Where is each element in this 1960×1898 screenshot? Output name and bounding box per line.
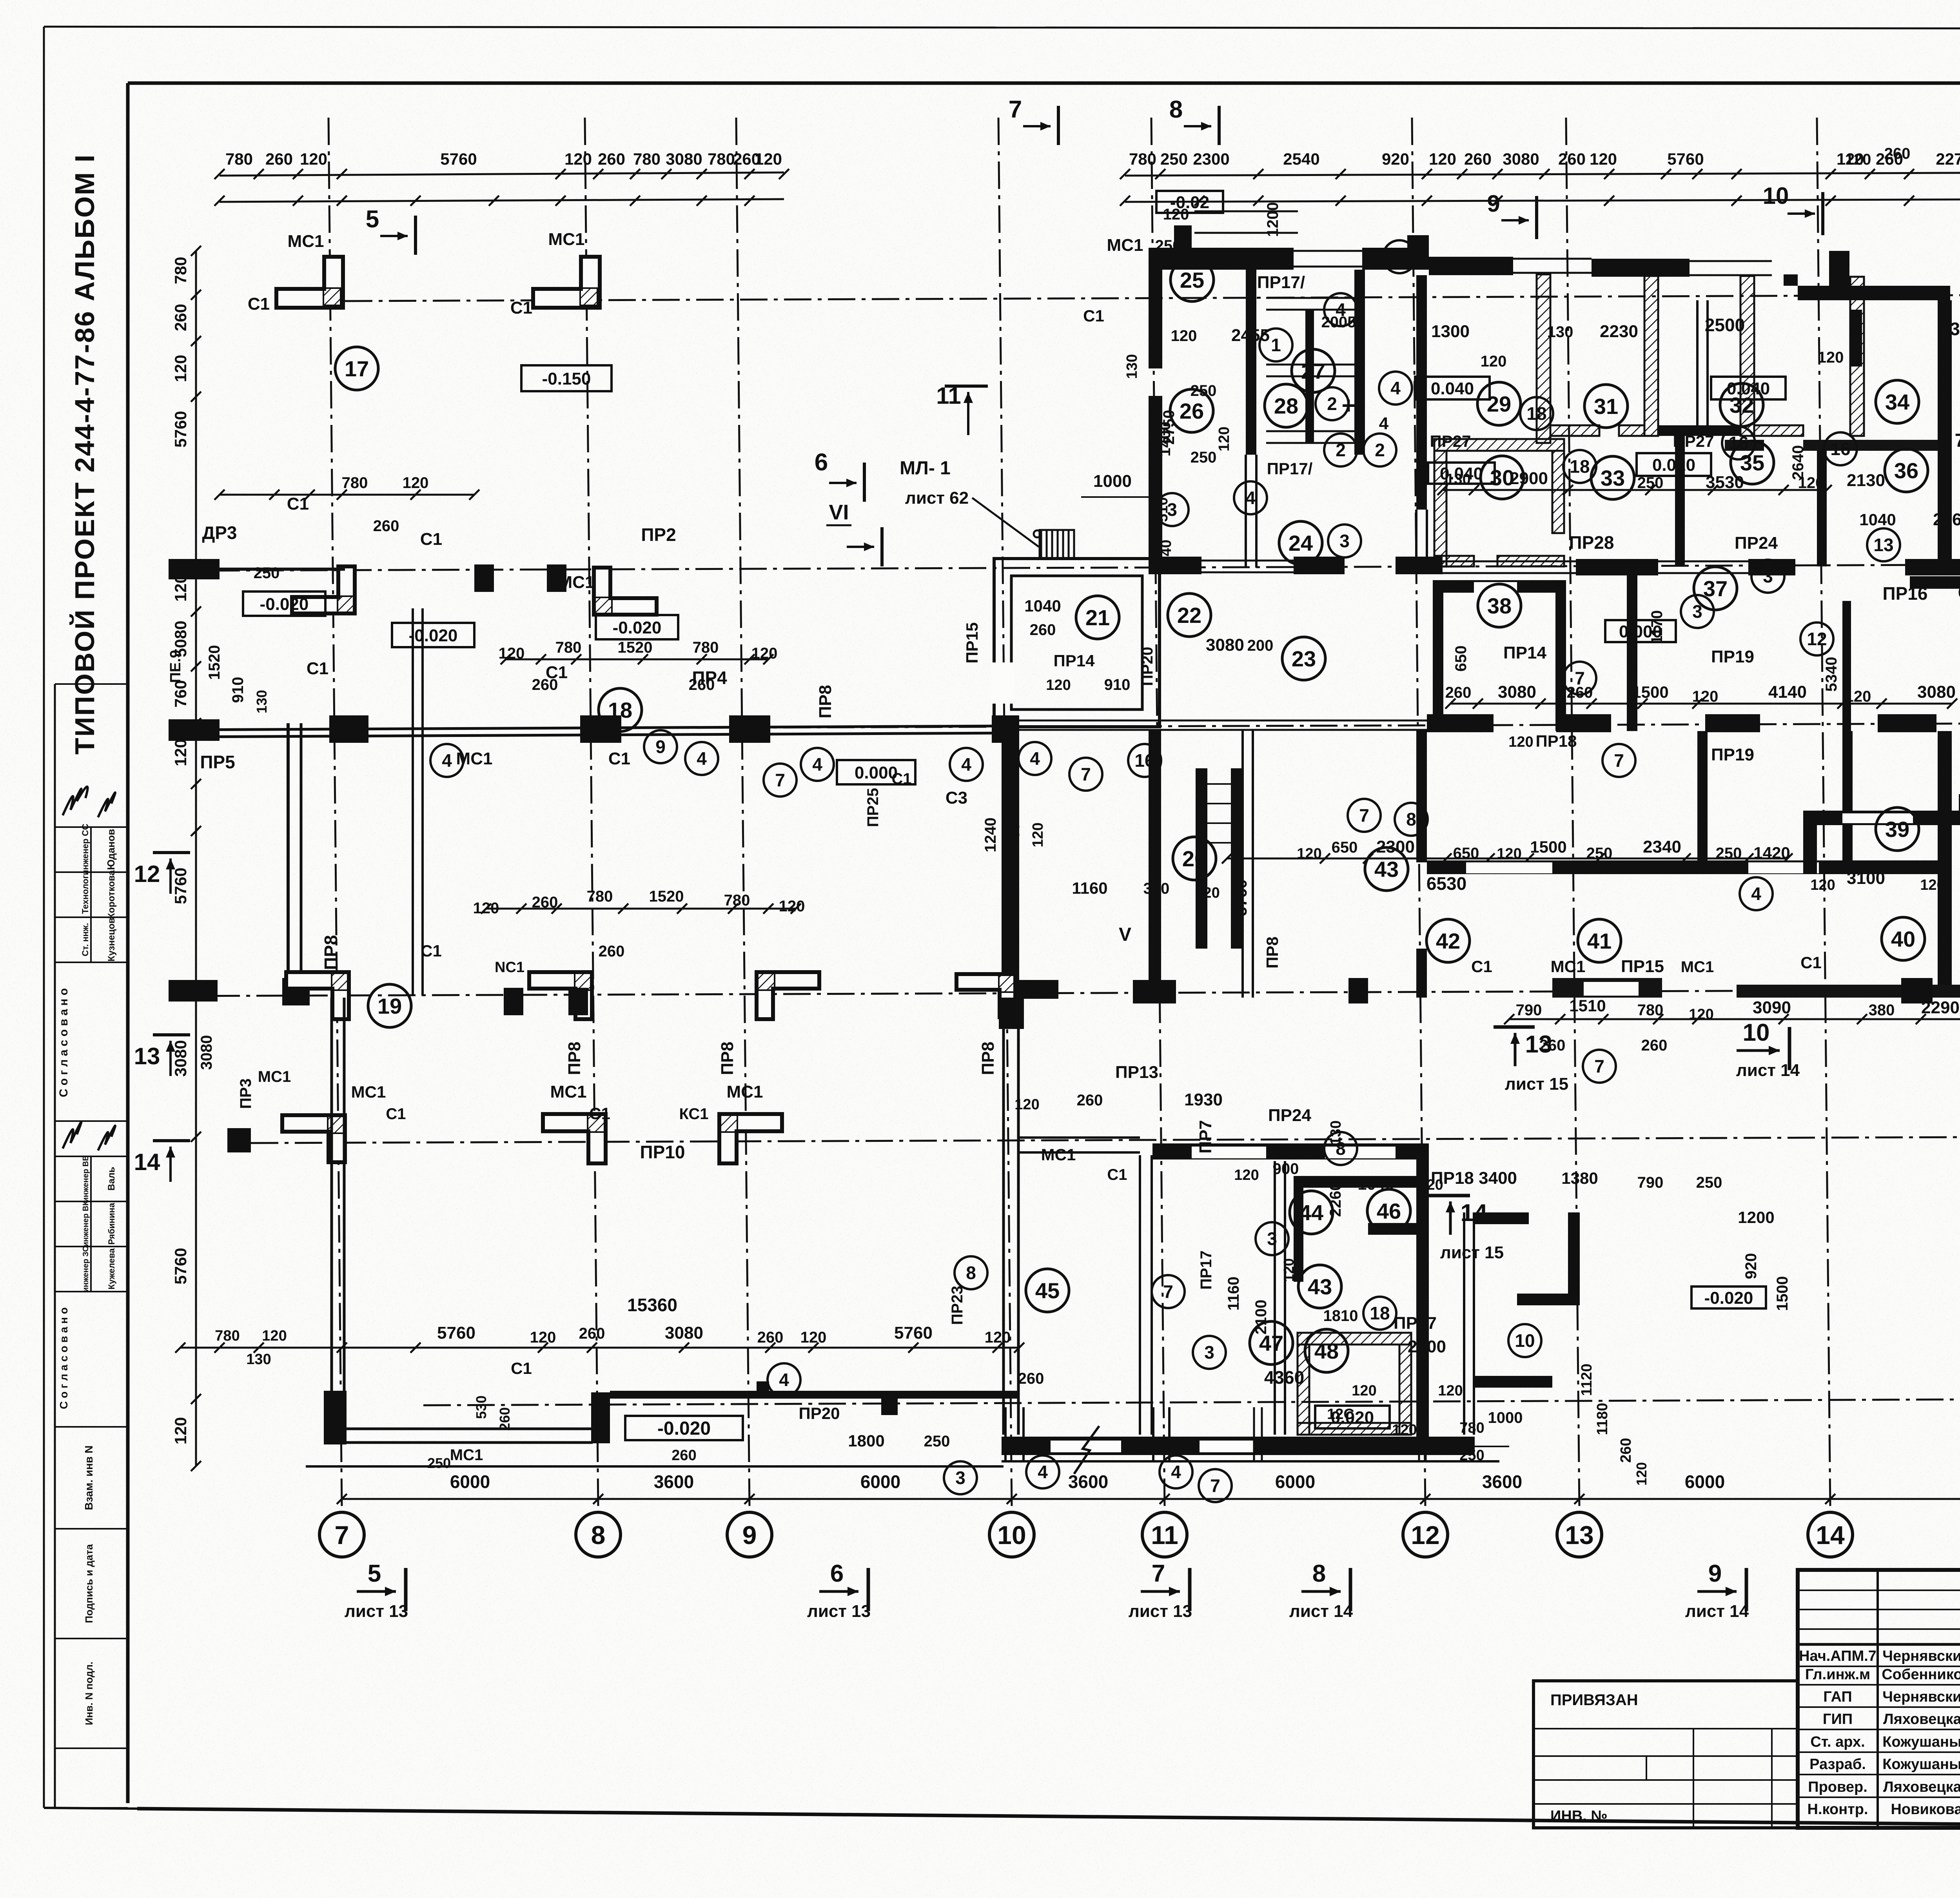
svg-text:3090: 3090 <box>1753 998 1791 1017</box>
room30 top wall <box>1434 439 1564 451</box>
svg-text:43: 43 <box>1374 857 1399 882</box>
svg-text:250: 250 <box>254 564 280 582</box>
svg-text:1160: 1160 <box>1225 1277 1242 1311</box>
axis В line <box>423 1399 1960 1405</box>
svg-text:790: 790 <box>1516 1002 1542 1019</box>
svg-text:инженер ВВ: инженер ВВ <box>82 1155 90 1202</box>
svg-text:Кожушаный: Кожушаный <box>1882 1756 1960 1773</box>
svg-text:5760: 5760 <box>894 1323 933 1343</box>
svg-text:260: 260 <box>598 150 625 168</box>
svg-text:4: 4 <box>1379 414 1389 433</box>
room32 right wall hatched <box>1850 277 1864 436</box>
pier С1 on В wall <box>757 1381 769 1398</box>
svg-text:640: 640 <box>1958 583 1960 601</box>
pos circle 3 <box>1681 595 1714 628</box>
svg-text:120: 120 <box>403 474 429 492</box>
svg-text:2340: 2340 <box>1643 837 1681 856</box>
partition left of 35 <box>1675 436 1685 566</box>
svg-text:ПРИВЯЗАН: ПРИВЯЗАН <box>1550 1691 1638 1709</box>
svg-text:2500: 2500 <box>1705 315 1745 335</box>
elevation -0.020 c <box>596 615 678 639</box>
room30 left wall <box>1434 451 1446 566</box>
Е wall seg2 <box>1556 714 1611 732</box>
svg-text:1170: 1170 <box>1648 610 1666 644</box>
exterior wall И band seg1 <box>1150 248 1294 270</box>
svg-text:2230: 2230 <box>1600 322 1638 341</box>
svg-text:3: 3 <box>1339 531 1350 551</box>
svg-text:1300: 1300 <box>1431 322 1470 341</box>
svg-text:инженер СС: инженер СС <box>80 824 90 875</box>
svg-text:Чернявский: Чернявский <box>1882 1648 1960 1664</box>
svg-text:1: 1 <box>1271 335 1281 355</box>
svg-text:120: 120 <box>755 150 782 168</box>
svg-text:3: 3 <box>1763 566 1773 586</box>
svg-text:4: 4 <box>1245 488 1256 508</box>
exterior wall И band seg3b <box>1592 259 1690 277</box>
svg-text:120: 120 <box>171 739 190 766</box>
room 34 circle <box>1876 380 1919 423</box>
axis 8 line <box>585 118 598 1508</box>
svg-text:1500: 1500 <box>1530 838 1566 856</box>
pier axis10/Е <box>992 715 1019 743</box>
room 36 circle <box>1885 449 1928 492</box>
svg-text:МС1: МС1 <box>456 749 493 768</box>
svg-text:6000: 6000 <box>1275 1472 1315 1492</box>
svg-text:10: 10 <box>1389 247 1409 267</box>
porch column b <box>1152 1407 1154 1461</box>
svg-text:250: 250 <box>1155 237 1181 254</box>
svg-text:7: 7 <box>1152 1560 1165 1587</box>
svg-text:3600: 3600 <box>1068 1472 1108 1492</box>
svg-text:12: 12 <box>134 861 160 887</box>
svg-text:3080: 3080 <box>1917 682 1956 702</box>
svg-text:260: 260 <box>171 304 190 331</box>
wall y2085 right wing top <box>1803 811 1960 825</box>
svg-text:лист 13: лист 13 <box>1129 1602 1192 1621</box>
svg-text:3: 3 <box>1204 1342 1214 1363</box>
svg-text:24: 24 <box>1289 531 1313 555</box>
vertical x4960 middle <box>1938 731 1952 998</box>
svg-text:-0.020: -0.020 <box>260 595 309 614</box>
room 46 circle <box>1367 1189 1410 1232</box>
pos circle 3 <box>1751 560 1784 593</box>
stub pier Г left <box>227 1128 251 1152</box>
wall tab above И mid <box>1407 235 1429 257</box>
svg-text:0.040: 0.040 <box>1431 379 1474 398</box>
svg-text:ПР17/: ПР17/ <box>1267 459 1313 478</box>
svg-text:5760: 5760 <box>171 867 190 904</box>
bottom frame line <box>44 1808 137 1809</box>
svg-text:250: 250 <box>924 1433 950 1450</box>
svg-text:1400: 1400 <box>1156 422 1174 457</box>
svg-text:120: 120 <box>1845 151 1871 168</box>
svg-text:2600: 2600 <box>1408 1337 1446 1356</box>
pilaster axis7/Д ПР8 <box>286 972 349 1019</box>
pos circle 4 <box>768 1363 800 1396</box>
svg-text:ПР2: ПР2 <box>641 524 676 545</box>
svg-text:2300: 2300 <box>1193 150 1229 168</box>
axis И line <box>345 295 1960 301</box>
svg-text:130: 130 <box>246 1351 271 1368</box>
Д wall seg ПР15 <box>1552 978 1662 998</box>
axis Г line <box>251 1137 1960 1143</box>
room 33 circle <box>1591 456 1634 499</box>
svg-text:-0.020: -0.020 <box>1704 1288 1753 1308</box>
axis 11 line <box>1151 118 1165 1508</box>
svg-text:18: 18 <box>1370 1303 1390 1323</box>
svg-text:3080: 3080 <box>665 1323 703 1343</box>
svg-text:780: 780 <box>215 1328 240 1344</box>
pier МС1 В row <box>591 1392 610 1443</box>
svg-text:4: 4 <box>1390 378 1401 398</box>
svg-text:12С: 12С <box>1327 1406 1354 1423</box>
room31 bottom wall right <box>1619 425 1644 436</box>
svg-text:19: 19 <box>377 994 402 1018</box>
svg-text:инженер ВК: инженер ВК <box>82 1201 90 1247</box>
svg-text:530: 530 <box>473 1395 489 1419</box>
axis 13 line <box>1566 118 1579 1508</box>
left exterior wall upper seg <box>1149 248 1162 368</box>
svg-text:VI: VI <box>829 501 849 524</box>
axis Д line <box>169 990 1960 996</box>
svg-text:250: 250 <box>1586 845 1613 862</box>
pier left wall/Д <box>282 978 310 1005</box>
svg-text:650: 650 <box>1452 646 1470 672</box>
svg-text:7: 7 <box>1009 96 1022 123</box>
svg-text:ПР28: ПР28 <box>1569 532 1614 553</box>
pos circle 4 <box>430 744 463 777</box>
svg-text:Кожушаный: Кожушаный <box>1882 1734 1960 1750</box>
svg-text:Короткова: Короткова <box>106 870 117 919</box>
svg-text:2130: 2130 <box>1847 471 1885 490</box>
svg-text:Взам. инв N: Взам. инв N <box>83 1446 95 1510</box>
svg-text:10: 10 <box>997 1521 1026 1550</box>
room 20 circle <box>1173 837 1216 880</box>
svg-text:16: 16 <box>1830 439 1850 459</box>
pos circle 3 <box>1156 493 1189 526</box>
pier axis9/Е <box>729 715 770 743</box>
svg-text:260: 260 <box>1884 145 1911 162</box>
pos circle 4 <box>1324 293 1357 326</box>
svg-text:Гл.инж.м: Гл.инж.м <box>1805 1666 1870 1683</box>
svg-text:7: 7 <box>1359 805 1369 826</box>
pos circle 4 <box>1740 877 1773 910</box>
svg-text:12: 12 <box>1807 629 1827 649</box>
porch line left hall <box>306 1465 1004 1468</box>
svg-text:5: 5 <box>368 1560 381 1587</box>
pos circle 4 <box>950 748 983 781</box>
svg-text:120: 120 <box>1171 327 1197 345</box>
pilaster МС1/С1 Г row a <box>543 1114 606 1163</box>
wall pier Ж <box>474 564 494 592</box>
svg-text:Технолог: Технолог <box>80 875 90 914</box>
Ж wall seg4 <box>1748 559 1795 575</box>
svg-text:ПР8: ПР8 <box>978 1042 998 1075</box>
room30 right wall <box>1552 451 1564 533</box>
svg-text:48: 48 <box>1314 1339 1339 1363</box>
svg-text:ПР20: ПР20 <box>799 1404 840 1423</box>
svg-text:ПР14: ПР14 <box>1054 651 1095 670</box>
svg-text:МС1: МС1 <box>548 230 585 249</box>
bottom block vertical x3747 double <box>1463 1212 1465 1435</box>
room48 left wall <box>1298 1345 1309 1435</box>
svg-text:35: 35 <box>1740 450 1764 475</box>
axis 14 line <box>1817 118 1830 1508</box>
svg-text:3600: 3600 <box>1482 1472 1522 1492</box>
vertical x2940 middle <box>1149 730 1161 998</box>
room38 right wall <box>1555 593 1566 731</box>
svg-text:Подпись и дата: Подпись и дата <box>83 1544 95 1623</box>
svg-text:260: 260 <box>1558 150 1586 168</box>
svg-text:120: 120 <box>1030 822 1046 847</box>
svg-text:5: 5 <box>366 206 379 233</box>
svg-text:23: 23 <box>1292 646 1316 671</box>
svg-text:МС1: МС1 <box>1551 957 1586 976</box>
svg-text:260: 260 <box>671 1447 696 1464</box>
svg-text:ПР8: ПР8 <box>321 935 341 970</box>
svg-text:120: 120 <box>1920 877 1945 893</box>
pos circle 4 <box>1026 1455 1059 1488</box>
right exterior wall upper block <box>1938 300 1952 564</box>
san wall bottom <box>1266 430 1356 432</box>
svg-text:120: 120 <box>1046 677 1071 693</box>
wall y2210 seg2 <box>1708 860 1938 874</box>
outer page border <box>44 27 1960 29</box>
elevation -0.020 room10 <box>1691 1287 1766 1308</box>
svg-text:ДР3: ДР3 <box>202 523 237 543</box>
svg-text:250: 250 <box>427 1455 451 1471</box>
svg-text:260: 260 <box>373 517 399 535</box>
svg-text:Н.контр.: Н.контр. <box>1807 1801 1868 1818</box>
pier Д row 2 <box>568 988 588 1015</box>
svg-text:ПР24: ПР24 <box>1735 533 1778 553</box>
Е wall seg1 <box>1427 714 1494 732</box>
svg-text:3: 3 <box>1692 601 1702 622</box>
room 22 circle <box>1168 593 1211 637</box>
svg-text:120: 120 <box>171 1417 190 1444</box>
svg-text:С1: С1 <box>1471 957 1492 976</box>
svg-text:ПР17: ПР17 <box>1198 1250 1215 1290</box>
svg-text:250: 250 <box>1637 474 1664 492</box>
svg-text:1800: 1800 <box>848 1432 884 1450</box>
axis Ж line <box>169 564 1960 571</box>
pier axis7/Е МС1 <box>329 715 368 743</box>
svg-text:5760: 5760 <box>1232 879 1250 916</box>
Ж wall seg3 <box>1396 557 1443 574</box>
top dimension chains <box>220 172 784 176</box>
svg-text:ПР14: ПР14 <box>1503 643 1546 662</box>
svg-text:2900: 2900 <box>1510 469 1548 488</box>
svg-text:Юданов: Юданов <box>105 829 117 870</box>
vertical x4710 middle <box>1842 731 1853 874</box>
svg-text:120: 120 <box>499 645 525 662</box>
bottom block vertical x2920 double <box>1139 1155 1141 1435</box>
svg-text:1420: 1420 <box>1753 844 1790 862</box>
svg-text:780: 780 <box>724 892 750 909</box>
svg-text:260: 260 <box>1539 1037 1566 1054</box>
svg-text:26: 26 <box>1180 399 1204 423</box>
svg-text:3080: 3080 <box>666 150 702 168</box>
partition x3613 lower <box>1415 510 1417 568</box>
svg-text:лист 14: лист 14 <box>1289 1602 1353 1621</box>
svg-text:9: 9 <box>1487 191 1500 217</box>
room44 top wall <box>1294 1176 1423 1188</box>
pos circle 3 <box>1256 1222 1289 1255</box>
pier Д row <box>504 988 523 1015</box>
svg-text:ПР19: ПР19 <box>1711 745 1754 764</box>
svg-text:С1: С1 <box>511 1359 532 1377</box>
svg-text:+: + <box>1341 392 1355 419</box>
svg-text:250: 250 <box>1459 1447 1484 1464</box>
elevation 0.040 a <box>1415 377 1490 399</box>
svg-text:250: 250 <box>1696 1174 1722 1191</box>
svg-text:6000: 6000 <box>450 1472 490 1492</box>
svg-text:120: 120 <box>1633 1462 1650 1486</box>
pos circle 1 <box>1259 328 1292 361</box>
porch column c <box>1253 1407 1255 1461</box>
svg-text:ПР23: ПР23 <box>949 1286 966 1325</box>
svg-text:10: 10 <box>1515 1330 1535 1351</box>
svg-text:МС1: МС1 <box>351 1083 386 1101</box>
san wall top <box>1266 297 1356 299</box>
svg-text:5760: 5760 <box>440 150 477 168</box>
svg-text:лист 13: лист 13 <box>345 1602 408 1621</box>
pos circle 10 <box>1383 240 1416 273</box>
svg-text:44: 44 <box>1299 1200 1323 1225</box>
svg-text:3100: 3100 <box>1847 869 1885 888</box>
svg-text:780: 780 <box>693 639 719 656</box>
room 32 circle <box>1720 383 1763 426</box>
Ж opening 2 <box>1443 561 1576 563</box>
room38 left wall <box>1433 593 1443 731</box>
svg-text:780: 780 <box>633 150 661 168</box>
svg-text:ПР24: ПР24 <box>1268 1106 1311 1125</box>
svg-text:4140: 4140 <box>1768 682 1807 702</box>
room 41 circle <box>1578 919 1621 962</box>
svg-text:27: 27 <box>1301 359 1325 383</box>
elevation -0.020 b <box>392 623 474 647</box>
axis 7 line <box>328 118 342 1508</box>
svg-text:8: 8 <box>591 1521 606 1550</box>
bottom dimension line 6000/3600 chain <box>342 1498 1960 1500</box>
svg-text:ПР15: ПР15 <box>963 622 981 664</box>
svg-text:2: 2 <box>1327 394 1337 414</box>
porch column d <box>1418 1407 1420 1461</box>
svg-text:ПР3: ПР3 <box>237 1078 254 1109</box>
svg-text:ПР8: ПР8 <box>816 685 835 718</box>
svg-text:780: 780 <box>171 257 190 284</box>
wall stub ДР3 <box>169 559 220 579</box>
room 18 circle <box>599 688 642 731</box>
svg-text:МС1: МС1 <box>1681 958 1714 976</box>
svg-text:45: 45 <box>1035 1278 1060 1303</box>
svg-text:1120: 1120 <box>1579 1364 1595 1396</box>
Е wall seg4 <box>1878 714 1936 732</box>
svg-text:Кузнецов: Кузнецов <box>106 918 117 962</box>
pier Д right С1 <box>1901 978 1933 1003</box>
svg-text:3: 3 <box>955 1468 965 1488</box>
svg-text:120: 120 <box>473 900 499 917</box>
room 44 circle <box>1290 1191 1333 1234</box>
signatures scribbles left table <box>63 787 88 815</box>
svg-text:120: 120 <box>1352 1383 1376 1399</box>
room 43 circle <box>1365 847 1408 891</box>
svg-text:ПР8: ПР8 <box>718 1042 737 1075</box>
pos circle 8 <box>1395 803 1428 836</box>
elevation 0.000 <box>837 760 915 784</box>
pos circle 16 <box>1722 426 1755 459</box>
svg-text:120: 120 <box>1297 846 1321 862</box>
wall stub Д left <box>169 980 218 1002</box>
svg-text:13: 13 <box>1565 1521 1593 1550</box>
svg-text:5760: 5760 <box>1667 150 1704 168</box>
svg-text:6: 6 <box>830 1560 844 1587</box>
svg-text:4360: 4360 <box>1940 319 1960 339</box>
svg-text:120: 120 <box>1438 1383 1463 1399</box>
pos circle 7 <box>764 764 797 797</box>
svg-text:4: 4 <box>442 750 452 771</box>
pier Д ПР7 <box>1348 978 1368 1003</box>
svg-text:8: 8 <box>1169 96 1183 123</box>
room48 bottom wall <box>1298 1423 1411 1435</box>
svg-text:130: 130 <box>1124 354 1140 379</box>
svg-text:920: 920 <box>1382 150 1409 168</box>
pos circle 2 <box>1316 387 1348 420</box>
svg-text:С1: С1 <box>287 494 309 514</box>
room 45 circle <box>1026 1269 1069 1312</box>
svg-text:1500: 1500 <box>1632 683 1668 701</box>
exterior wall И band seg3 <box>1429 257 1513 275</box>
left wall of middle block (axis10) <box>1002 730 1019 998</box>
svg-text:2100: 2100 <box>1252 1300 1270 1335</box>
room 25 circle <box>1171 258 1214 301</box>
pos circle 7 <box>1069 758 1102 791</box>
svg-text:8: 8 <box>966 1263 976 1283</box>
svg-text:920: 920 <box>1742 1253 1760 1279</box>
svg-text:1040: 1040 <box>1859 510 1896 529</box>
wall y3525 <box>1475 1376 1552 1388</box>
В wall lower line b <box>347 1441 593 1444</box>
svg-text:С о г л а с о в а н о: С о г л а с о в а н о <box>58 1307 70 1409</box>
svg-text:120: 120 <box>1234 1167 1259 1183</box>
svg-text:7: 7 <box>1955 430 1960 451</box>
svg-text:6: 6 <box>815 449 828 476</box>
Е wall seg3 <box>1705 714 1760 732</box>
partition right of 37 <box>1627 564 1637 731</box>
svg-text:120: 120 <box>1195 885 1220 901</box>
svg-text:1200: 1200 <box>1264 202 1281 237</box>
left margin signature table <box>54 684 56 1808</box>
svg-text:130: 130 <box>1547 323 1573 341</box>
svg-text:120: 120 <box>779 898 805 915</box>
room 39 circle <box>1876 807 1919 851</box>
axis 9 circle <box>727 1512 772 1557</box>
room31 left wall hatched <box>1537 274 1550 443</box>
svg-text:260: 260 <box>532 894 558 911</box>
svg-text:-0.02: -0.02 <box>1170 193 1209 212</box>
svg-text:Ст. ннж.: Ст. ннж. <box>80 923 90 956</box>
svg-text:790: 790 <box>1637 1174 1664 1191</box>
pilaster С1 axis7/Ж <box>292 566 355 613</box>
svg-text:С1: С1 <box>421 942 442 960</box>
svg-text:ПР25: ПР25 <box>864 788 882 827</box>
svg-text:1510: 1510 <box>1569 996 1606 1015</box>
svg-text:260: 260 <box>265 150 293 168</box>
room31 right wall hatched <box>1644 276 1658 436</box>
svg-text:-0.150: -0.150 <box>542 369 591 388</box>
pilaster МС1 axis7/И <box>276 257 343 308</box>
svg-text:2: 2 <box>1375 440 1385 460</box>
